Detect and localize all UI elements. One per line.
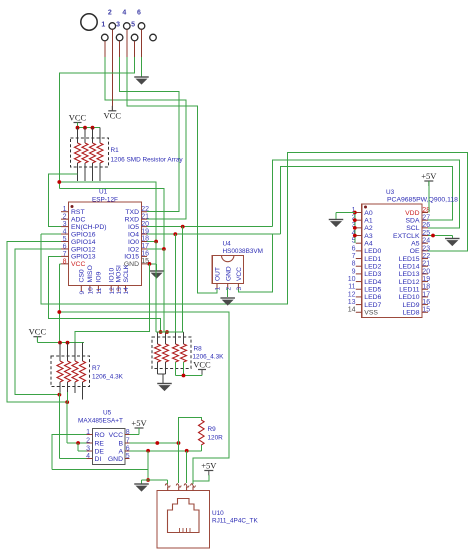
svg-text:3: 3 (236, 287, 243, 291)
svg-text:EN(CH-PD): EN(CH-PD) (71, 224, 107, 231)
pin stub pad4 (126, 30, 128, 58)
U3 left pins (348, 207, 382, 317)
svg-text:GND: GND (225, 266, 232, 281)
svg-text:27: 27 (422, 215, 430, 222)
svg-text:10: 10 (348, 276, 356, 283)
junction R8 b (165, 330, 169, 334)
svg-text:1: 1 (215, 287, 222, 291)
svg-text:2: 2 (225, 287, 232, 291)
wire A0-A4 bus (354, 213, 356, 244)
wire GPIO13 (48, 256, 160, 332)
junction A1 (353, 218, 357, 222)
wire A0 to ground (336, 213, 355, 220)
svg-text:1: 1 (63, 206, 67, 213)
svg-text:LED5: LED5 (364, 287, 381, 294)
resistor R7 element 3 (72, 361, 78, 382)
svg-text:SDA: SDA (406, 217, 420, 224)
svg-text:LED3: LED3 (364, 271, 381, 278)
svg-text:GPIO14: GPIO14 (71, 239, 96, 246)
svg-text:LED8: LED8 (402, 310, 419, 317)
svg-text:TXD: TXD (125, 209, 139, 216)
resistor R1 dashed outline (71, 138, 109, 167)
svg-text:RJ11_4P4C_TK: RJ11_4P4C_TK (212, 518, 258, 525)
svg-text:3: 3 (116, 22, 120, 29)
svg-text:DE: DE (95, 448, 105, 455)
svg-text:6: 6 (137, 10, 141, 17)
mounting hole pad (81, 14, 97, 30)
wire B to RJ11 pin2 (178, 443, 180, 483)
svg-text:VCC: VCC (29, 327, 47, 337)
svg-text:22: 22 (422, 253, 430, 260)
wire node A to IO0 column (59, 182, 156, 242)
pin stub pad3 (119, 41, 121, 57)
connector U10 jack profile (168, 499, 200, 533)
svg-text:U5: U5 (103, 410, 112, 417)
resistor R8 element 2 (163, 344, 169, 362)
svg-text:A1: A1 (364, 217, 373, 224)
svg-text:9: 9 (79, 291, 86, 295)
svg-text:R8: R8 (194, 346, 203, 353)
wire U5 RO row (52, 435, 86, 470)
svg-text:R7: R7 (92, 365, 101, 372)
junction RE-DE (76, 441, 80, 445)
svg-text:LED15: LED15 (399, 256, 420, 263)
svg-text:ADC: ADC (71, 216, 85, 223)
connector pad 6 (137, 10, 145, 30)
svg-text:A4: A4 (364, 240, 373, 247)
wire GPIO16 row (41, 233, 61, 235)
junction IO5 (181, 225, 185, 229)
svg-text:GPIO12: GPIO12 (71, 246, 96, 253)
R1 element 1 top lead (77, 128, 79, 143)
wire pad6 to ground (141, 57, 143, 77)
svg-text:VCC: VCC (71, 261, 85, 268)
svg-text:OUT: OUT (215, 267, 222, 281)
svg-text:7: 7 (352, 253, 356, 260)
wire U5 DI row (59, 457, 86, 459)
R1 element 3 bottom lead (92, 163, 94, 181)
svg-text:A3: A3 (364, 233, 373, 240)
wire U1 VCC stub (59, 264, 61, 343)
svg-text:1206_4.3K: 1206_4.3K (92, 374, 124, 381)
svg-text:GPIO16: GPIO16 (71, 231, 96, 238)
wire IO5 row (147, 226, 272, 228)
svg-text:9: 9 (352, 268, 356, 275)
pin stub pad1 (104, 41, 106, 57)
ground U5 (134, 484, 149, 492)
svg-text:VSS: VSS (364, 310, 378, 317)
wire U5 VCC (130, 428, 140, 435)
svg-text:LED1: LED1 (364, 256, 381, 263)
R1 element 3 top lead (92, 128, 94, 143)
+5V symbol RJ11 (201, 461, 217, 476)
svg-text:LED12: LED12 (399, 279, 420, 286)
svg-text:VDD: VDD (405, 210, 419, 217)
resistor R1 element 3 (90, 143, 96, 163)
+5V symbol U3 (421, 171, 437, 186)
junction IO4 (173, 232, 177, 236)
U5 right pins (108, 429, 130, 463)
wire VCC to R1 tops (78, 123, 101, 128)
svg-text:MOSI: MOSI (116, 265, 123, 282)
resistor R7 element 4 (80, 361, 86, 382)
wire IO0 row (147, 241, 156, 243)
wire to IO2 column (59, 189, 164, 250)
svg-text:IO4: IO4 (128, 231, 139, 238)
junction R1 c (91, 126, 95, 130)
svg-text:RO: RO (95, 432, 105, 439)
wire IO5 to SCL (272, 160, 459, 228)
junction node A (57, 180, 61, 184)
svg-text:RXD: RXD (125, 216, 139, 223)
wire gnd spur (142, 480, 168, 484)
U1 right pins (124, 206, 149, 268)
junction GND bus (146, 478, 150, 482)
svg-text:1: 1 (86, 429, 90, 436)
svg-text:22: 22 (141, 206, 149, 213)
wire GPIO14 (7, 242, 67, 403)
svg-text:3: 3 (86, 445, 90, 452)
U3 pin1 mark (364, 206, 367, 209)
svg-text:6: 6 (63, 243, 67, 250)
svg-text:IO10: IO10 (109, 268, 116, 283)
svg-text:4: 4 (122, 10, 126, 17)
wire U5 RE row (67, 442, 86, 444)
wire R7 res2 join (66, 392, 68, 443)
svg-text:OE: OE (410, 248, 420, 255)
U3 right pins (393, 207, 430, 317)
ground U4 (220, 298, 235, 306)
VCC symbol R1 (69, 112, 87, 127)
svg-text:11: 11 (348, 284, 355, 291)
svg-text:24: 24 (422, 238, 430, 245)
svg-text:LED13: LED13 (399, 271, 420, 278)
VCC symbol pad2 (104, 106, 122, 121)
ground U3 addr (329, 220, 344, 228)
svg-text:IO2: IO2 (128, 246, 139, 253)
wire pad5 left drop (59, 57, 134, 189)
op-amp U1 ESP-12F body (69, 202, 142, 286)
junction GND U1 (148, 262, 152, 266)
wire GND row (147, 264, 157, 271)
svg-text:MAX485ESA+T: MAX485ESA+T (78, 418, 123, 425)
svg-text:+5V: +5V (201, 461, 217, 471)
wire U4 GND (227, 288, 229, 297)
ground U1 GND (149, 271, 164, 279)
U5 left pins (86, 429, 105, 463)
svg-text:6: 6 (352, 245, 356, 252)
svg-text:13: 13 (116, 287, 123, 295)
svg-text:SCLK: SCLK (123, 264, 130, 282)
wire U5 A row (130, 450, 202, 452)
svg-text:7: 7 (63, 251, 67, 258)
svg-text:VCC: VCC (236, 267, 243, 281)
R7 top leads (60, 343, 83, 361)
svg-text:5: 5 (126, 453, 130, 460)
svg-text:15: 15 (422, 307, 430, 314)
wire R9 top (179, 417, 202, 443)
svg-text:LED4: LED4 (364, 279, 381, 286)
svg-text:19: 19 (422, 276, 430, 283)
junction R8 a (159, 330, 163, 334)
wire R7 res1 join (58, 392, 61, 458)
svg-text:DI: DI (95, 456, 102, 463)
svg-text:LED0: LED0 (364, 248, 381, 255)
svg-text:18: 18 (422, 284, 430, 291)
junction IO0 (154, 240, 158, 244)
svg-text:IO15: IO15 (124, 254, 139, 261)
svg-text:17: 17 (422, 291, 430, 298)
VCC symbol R8 (193, 359, 211, 374)
wire IO4 row (147, 233, 281, 235)
svg-text:8: 8 (63, 258, 67, 265)
wire bus under U5 (52, 468, 148, 470)
svg-text:21: 21 (422, 261, 430, 268)
junction A (185, 449, 189, 453)
svg-text:1206 SMD Resistor Array: 1206 SMD Resistor Array (111, 157, 184, 164)
svg-text:LED7: LED7 (364, 302, 381, 309)
svg-text:U1: U1 (99, 189, 108, 196)
svg-text:4: 4 (86, 453, 90, 460)
resistor R1 element 4 (97, 143, 103, 163)
U1 left pins (61, 206, 107, 268)
svg-text:ESP-12F: ESP-12F (92, 197, 118, 204)
R7 bottom leads (60, 382, 83, 400)
svg-text:R9: R9 (208, 426, 217, 433)
junction R7 d (65, 400, 69, 404)
resistor R1 element 2 (82, 143, 88, 163)
svg-text:U10: U10 (212, 510, 224, 517)
wire pad4 to U4 OUT (127, 57, 217, 293)
svg-text:+5V: +5V (131, 418, 147, 428)
resistor R7 element 2 (65, 361, 71, 382)
wire IO4 column (174, 234, 176, 332)
junction A0 (353, 211, 357, 215)
junction A2 (353, 226, 357, 230)
svg-text:8: 8 (126, 429, 130, 436)
R1 element 2 top lead (84, 128, 86, 143)
svg-text:16: 16 (422, 299, 430, 306)
U10 pins (165, 484, 195, 491)
svg-text:3: 3 (63, 221, 67, 228)
wire U4 VCC (238, 234, 272, 292)
svg-text:+5V: +5V (421, 171, 437, 181)
svg-text:LED9: LED9 (402, 302, 419, 309)
svg-text:2: 2 (86, 437, 90, 444)
R8 vcc leads (176, 362, 203, 376)
svg-text:U4: U4 (223, 241, 232, 248)
wire R9 bottom (200, 445, 202, 451)
svg-text:PCA9685PW,Q900,118: PCA9685PW,Q900,118 (387, 197, 458, 204)
svg-text:GPIO13: GPIO13 (71, 254, 96, 261)
svg-text:RST: RST (71, 209, 85, 216)
resistor R1 element 1 (75, 143, 81, 163)
svg-text:B: B (118, 440, 123, 447)
svg-text:16: 16 (141, 251, 149, 258)
wire IO2 row (147, 248, 164, 250)
wire +5V to VDD (428, 181, 430, 213)
connector U10 outline (157, 491, 210, 549)
svg-text:1: 1 (101, 22, 105, 29)
svg-text:13: 13 (348, 299, 356, 306)
R1 element 1 bottom lead (77, 163, 79, 181)
svg-text:HS0038B3VM: HS0038B3VM (223, 248, 264, 255)
resistor R8 dashed outline (152, 337, 191, 369)
junction R7 b (66, 341, 70, 345)
svg-text:VCC: VCC (69, 112, 87, 122)
ground pad6 (134, 77, 149, 85)
junction EXTCLK (431, 234, 435, 238)
connector pad 2 (108, 10, 116, 30)
connector pad 1 (101, 22, 108, 41)
svg-text:5: 5 (63, 236, 67, 243)
svg-text:SCL: SCL (406, 225, 419, 232)
junction R8 vcc (182, 374, 186, 378)
svg-text:LED14: LED14 (399, 264, 420, 271)
connector pad 3 (116, 22, 123, 41)
wire A to RJ11 pin3 (186, 451, 188, 483)
ground EXTCLK (445, 239, 460, 247)
svg-text:23: 23 (422, 245, 430, 252)
svg-text:VCC: VCC (193, 359, 211, 369)
svg-text:14: 14 (348, 307, 356, 314)
connector pad 5 (131, 22, 138, 41)
svg-text:VCC: VCC (104, 110, 122, 120)
svg-text:A5: A5 (411, 240, 420, 247)
junction R7 a (58, 341, 62, 345)
svg-text:20: 20 (422, 268, 430, 275)
resistor R7 dashed outline (51, 356, 90, 387)
wire VCC bus R7 (37, 337, 84, 343)
svg-text:IO0: IO0 (128, 239, 139, 246)
connector pad 4 (122, 10, 130, 30)
ground R8 (157, 384, 172, 392)
U1 pin1 mark (71, 205, 74, 208)
connector U10 contacts (180, 528, 191, 533)
connector pad spare (150, 34, 157, 41)
R1 element 4 top lead (99, 128, 101, 143)
junction R1 a (76, 126, 80, 130)
wire GND down to R7 (75, 264, 150, 343)
svg-text:10: 10 (88, 287, 95, 295)
R8 ground leads (158, 362, 166, 383)
wire IO4 to SDA (281, 167, 453, 235)
svg-text:7: 7 (126, 437, 130, 444)
svg-text:8: 8 (352, 261, 356, 268)
svg-text:RE: RE (95, 440, 105, 447)
U1 bottom pins (79, 264, 131, 294)
wire U5 DE row (78, 443, 86, 451)
svg-text:120R: 120R (208, 435, 224, 442)
junction IO2 (162, 247, 166, 251)
wire U5 B row (130, 442, 179, 444)
svg-text:4: 4 (63, 228, 67, 235)
svg-text:IO9: IO9 (96, 271, 103, 282)
svg-text:2: 2 (108, 10, 112, 17)
svg-text:21: 21 (141, 213, 149, 220)
svg-text:LED11: LED11 (399, 287, 419, 294)
junction A2 (146, 449, 150, 453)
svg-text:12: 12 (348, 291, 356, 298)
junction B a (155, 441, 159, 445)
op-amp U3 PCA9685 body (362, 204, 422, 318)
wire R8 tie (156, 331, 183, 333)
wire pad1 to RXD (105, 57, 186, 219)
svg-text:A0: A0 (364, 210, 373, 217)
junction VCC bus (57, 310, 61, 314)
wire pad3 to TXD (120, 57, 179, 212)
junction R1 b (83, 126, 87, 130)
wire IO2 column (163, 249, 165, 332)
resistor R9 (199, 420, 205, 445)
wire pad2 to VCC (111, 57, 113, 111)
junction A3 (353, 234, 357, 238)
svg-text:MISO: MISO (87, 265, 94, 282)
svg-text:A2: A2 (364, 225, 373, 232)
wire VCC bus to RJ11 (59, 312, 229, 483)
wire +5V to RJ11 pin4 (193, 475, 209, 484)
svg-text:11: 11 (96, 287, 103, 294)
svg-text:GND: GND (108, 456, 123, 463)
R1 element 4 bottom lead (99, 163, 101, 181)
wire EXTCLK (428, 236, 452, 239)
wire IO0 column (155, 242, 157, 333)
svg-text:5: 5 (131, 22, 135, 29)
resistor R8 element 1 (155, 344, 161, 362)
op-amp U5 MAX485 body (93, 429, 126, 465)
R8 top leads (158, 332, 184, 344)
pin stub pad5 (134, 41, 136, 57)
svg-text:LED2: LED2 (364, 264, 381, 271)
resistor R8 element 4 (181, 344, 187, 362)
svg-text:6: 6 (126, 445, 130, 452)
svg-text:CS0: CS0 (79, 269, 86, 282)
wire R1 to EN(CH-PD) (48, 174, 77, 227)
wire A to gnd bus (147, 451, 149, 480)
svg-text:2: 2 (63, 214, 67, 221)
wire GPIO12 (15, 249, 61, 395)
resistor R7 element 1 (57, 361, 63, 382)
svg-text:LED6: LED6 (364, 294, 381, 301)
svg-text:EXTCLK: EXTCLK (393, 233, 420, 240)
svg-text:R1: R1 (111, 147, 120, 154)
+5V symbol U5 (131, 418, 147, 433)
pin stub pad6 (141, 30, 143, 58)
svg-text:A: A (118, 448, 123, 455)
wire GPIO16 to OE (41, 152, 468, 304)
svg-text:26: 26 (422, 222, 430, 229)
svg-text:VCC: VCC (109, 432, 123, 439)
R1 element 2 bottom lead (84, 163, 86, 181)
junction R7 c (58, 393, 62, 397)
svg-text:U3: U3 (386, 189, 395, 196)
junction B b (177, 441, 181, 445)
U4 pins (215, 266, 243, 290)
pin stub pad2 (111, 30, 113, 58)
svg-text:LED10: LED10 (399, 294, 420, 301)
svg-text:12: 12 (109, 287, 116, 295)
transistor U4 body (212, 256, 243, 284)
svg-text:IO5: IO5 (128, 224, 139, 231)
svg-text:14: 14 (123, 287, 130, 295)
wire IO5 column (182, 227, 184, 332)
resistor R8 element 3 (173, 344, 179, 362)
VCC symbol R7 (29, 327, 47, 342)
